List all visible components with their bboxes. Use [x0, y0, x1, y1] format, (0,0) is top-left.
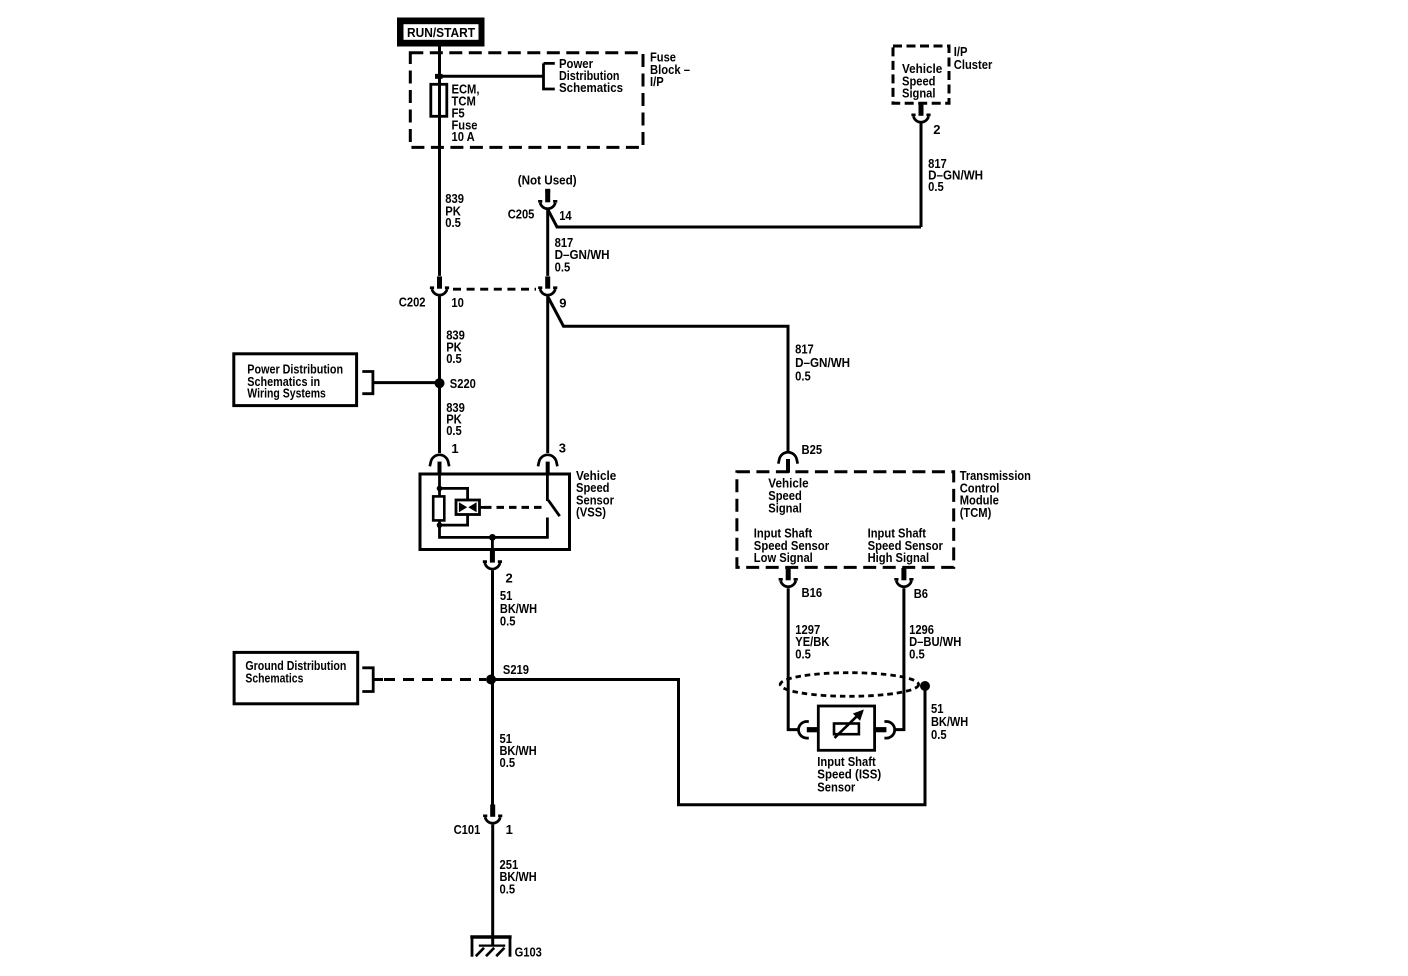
shield drain junction [920, 681, 930, 691]
node (bottom junction) [437, 522, 443, 528]
wire: diagonal from C202 pin 9 [548, 297, 788, 451]
connector TCM B16 (stub + cup) [779, 568, 798, 587]
wire: B16 down to ISS sensor [788, 588, 798, 729]
Input Shaft Speed Sensor Low Signal label [754, 526, 829, 566]
junction square on fuse feed wire [435, 74, 443, 79]
svg-text:0.5: 0.5 [500, 755, 516, 770]
svg-text:Schematics: Schematics [245, 671, 303, 686]
Ground Distribution Schematics box [234, 652, 358, 703]
svg-text:C202: C202 [399, 294, 426, 309]
svg-text:0.5: 0.5 [928, 179, 944, 194]
Vehicle Speed Signal label (I/P cluster) [902, 61, 942, 101]
svg-text:(VSS): (VSS) [576, 504, 606, 519]
svg-text:1: 1 [451, 441, 458, 456]
svg-text:(TCM): (TCM) [960, 505, 992, 520]
wire label 51 BK/WH 0.5 (drain) [931, 701, 968, 742]
wire: C202 pin 10 down to VSS pin 1 [438, 296, 441, 453]
Input Shaft Speed Sensor High Signal label [868, 526, 943, 566]
wire label 1297 YE/BK 0.5 [795, 622, 830, 662]
pickup stub to dashes [480, 506, 486, 509]
svg-text:14: 14 [559, 208, 572, 223]
svg-text:10 A: 10 A [452, 129, 476, 144]
connector C101 pin 1 (stub + cup) [483, 805, 502, 824]
VSS internal branch to pickup coil [440, 488, 468, 500]
svg-text:9: 9 [559, 296, 566, 311]
svg-text:I/P: I/P [650, 74, 664, 89]
svg-text:0.5: 0.5 [555, 260, 571, 275]
dashed wire to S219 [384, 678, 486, 681]
svg-text:0.5: 0.5 [446, 423, 462, 438]
svg-text:B25: B25 [802, 442, 823, 457]
bracket pointer (ground reference) [362, 668, 373, 692]
svg-text:(Not Used): (Not Used) [518, 173, 577, 188]
VSS internal: below coil to bottom rail [440, 515, 468, 526]
svg-text:Sensor: Sensor [817, 779, 855, 794]
svg-text:G103: G103 [515, 945, 542, 960]
wire label 817 D-GN/WH 0.5 (I/P drop) [928, 156, 983, 194]
VSS internal: pin1 lead to top node [438, 474, 441, 496]
node on bottom rail (to pin 2) [489, 534, 496, 541]
Transmission Control Module dashed box [737, 472, 954, 568]
svg-text:0.5: 0.5 [500, 614, 516, 629]
wire: branch to Power Distribution Schematics bracket [440, 75, 544, 78]
magnetic pickup symbol (box with X) [456, 500, 480, 515]
wire label 817 D-GN/WH 0.5 (to TCM B25) [795, 341, 850, 383]
svg-text:0.5: 0.5 [795, 646, 811, 661]
connector C202 pin 10 (stub + cup) [430, 276, 449, 295]
switch blade (VSS) [548, 500, 559, 516]
svg-text:Schematics: Schematics [559, 80, 623, 95]
Vehicle Speed Sensor (VSS) box [420, 474, 570, 550]
svg-text:2: 2 [933, 122, 940, 137]
connector TCM B25 (arch + stub) [778, 452, 797, 472]
wire: S219 around ISS sensor to shield drain [491, 680, 925, 805]
connector VSS pin 3 (arch + stub) [538, 455, 557, 475]
I/P Cluster label [954, 44, 993, 72]
svg-text:B6: B6 [914, 586, 928, 601]
svg-text:Signal: Signal [768, 500, 802, 515]
wire label 1296 D-BU/WH 0.5 [909, 622, 961, 662]
svg-text:B16: B16 [802, 585, 823, 600]
variable element rect (ISS) [834, 724, 859, 735]
svg-text:10: 10 [451, 295, 464, 310]
Power Distribution Schematics label [559, 56, 623, 95]
wire: I/P pin 2 down [920, 124, 923, 228]
svg-text:0.5: 0.5 [909, 646, 925, 661]
svg-text:0.5: 0.5 [500, 881, 516, 896]
ISS sensor connector right ) [884, 722, 894, 739]
wire: pin2 drop inside box [491, 537, 494, 549]
TCM label [960, 468, 1031, 520]
svg-text:RUN/START: RUN/START [407, 25, 475, 40]
shield ellipse (dashed) [780, 673, 918, 697]
connector C205 pin 14 (stub + cup) [545, 189, 550, 193]
resistor (VSS internal) [433, 496, 444, 520]
wire: RUN/START down into fuse block [438, 47, 441, 276]
svg-text:3: 3 [559, 441, 566, 456]
VSS label [576, 468, 616, 519]
I/P Cluster dashed box [893, 46, 949, 103]
svg-text:Low Signal: Low Signal [754, 550, 813, 565]
svg-text:0.5: 0.5 [445, 215, 461, 230]
fuse value label [452, 82, 480, 145]
svg-text:S219: S219 [503, 662, 529, 677]
wire label 51 BK/WH 0.5 (VSS to S219) [500, 588, 537, 629]
Fuse Block - I/P label [650, 49, 690, 89]
ground G103 symbol [470, 937, 511, 957]
svg-text:0.5: 0.5 [931, 727, 947, 742]
connector pin 2 of I/P cluster (stub + cup) [911, 104, 930, 123]
svg-text:Signal: Signal [902, 86, 936, 101]
svg-text:High Signal: High Signal [868, 550, 930, 565]
dashed mechanical link (VSS) [484, 506, 546, 509]
wire label 839 PK 0.5 (lower) [446, 400, 465, 438]
wire between resistor bottom and bottom junction [438, 520, 441, 528]
wire: bracket to S220 [373, 381, 440, 384]
Fuse Block - I/P dashed box [410, 53, 643, 148]
connector C202 pin 9 (stub + cup) [538, 276, 557, 295]
svg-text:0.5: 0.5 [795, 368, 811, 383]
svg-text:S220: S220 [450, 376, 476, 391]
splice S219 [486, 675, 496, 685]
wire: VSS pin 2 down to S219 [491, 570, 494, 805]
fuse ECM TCM F5 10A [431, 84, 447, 116]
svg-text:2: 2 [506, 571, 513, 586]
RUN/START feed box [397, 18, 485, 47]
wire: bracket stub [373, 678, 383, 681]
Vehicle Speed Signal label (TCM) [768, 476, 808, 516]
wire label 839 PK 0.5 (upper) [445, 191, 464, 230]
Power Distribution Schematics in Wiring Systems box [234, 354, 357, 406]
VSS internal bottom rail [440, 518, 548, 538]
ISS sensor connector left ( [798, 722, 808, 739]
svg-text:1: 1 [506, 822, 513, 837]
wire: C202 pin 9 down to VSS pin 3 [546, 296, 549, 453]
svg-text:Cluster: Cluster [954, 57, 993, 72]
wire: C101 down to G103 [491, 825, 494, 946]
svg-text:C101: C101 [454, 822, 481, 837]
bracket pointer (S220 reference) [362, 372, 373, 394]
dashed link between C202 cavities [453, 288, 536, 291]
arrow (ISS variable) [835, 714, 860, 738]
wire: B6 down to ISS sensor [895, 588, 904, 729]
wire label 839 PK 0.5 (middle) [446, 328, 465, 366]
svg-text:0.5: 0.5 [446, 351, 462, 366]
splice S220 [435, 378, 445, 388]
wire label 251 BK/WH 0.5 [500, 857, 537, 897]
bracket pointer (Power Distribution Schematics) [544, 63, 555, 89]
Input Shaft Speed (ISS) Sensor box [818, 706, 874, 750]
ISS sensor label [817, 754, 881, 795]
VSS internal: pin 3 lead (upper switch contact) [546, 474, 549, 501]
svg-text:C205: C205 [508, 206, 535, 221]
connector TCM B6 (stub + cup) [894, 568, 913, 587]
wire: diagonal from C205 pin 14 to horizontal run [548, 210, 921, 227]
svg-text:Wiring Systems: Wiring Systems [247, 386, 326, 401]
wire label 817 D-GN/WH 0.5 (below C205) [555, 235, 610, 275]
wire: C205 down to C202 pin 9 [546, 210, 549, 276]
connector VSS pin 2 (stub + cup) [483, 550, 502, 569]
node (top junction) [437, 486, 443, 492]
connector VSS pin 1 (arch + stub) [430, 455, 449, 475]
wire label 51 BK/WH 0.5 (S219 to C101) [500, 731, 537, 770]
